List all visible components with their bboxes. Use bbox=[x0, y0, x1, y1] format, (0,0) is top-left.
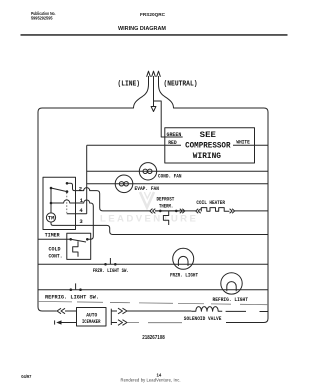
svg-text:COND. FAN: COND. FAN bbox=[158, 174, 182, 180]
svg-text:FRZR. LIGHT: FRZR. LIGHT bbox=[170, 272, 198, 278]
freezer light switch dots bbox=[104, 263, 116, 266]
connector chevrons right of coil heater bbox=[230, 209, 235, 213]
timer terminal 1 wire with hops bbox=[51, 200, 93, 239]
wire icemaker feed bbox=[65, 310, 77, 312]
wire red from node at x86.7 to compressor box bbox=[87, 144, 181, 146]
svg-text:REFRIG. LIGHT: REFRIG. LIGHT bbox=[213, 297, 249, 303]
connector chevrons left of defrost thermostat bbox=[150, 209, 156, 214]
defrost thermostat sensing bracket bbox=[163, 211, 168, 225]
cold control wire from left bus bbox=[38, 238, 71, 240]
wire freezer light rung bbox=[38, 263, 268, 265]
motor evaporator fan circle bbox=[115, 175, 133, 193]
svg-text:04/97: 04/97 bbox=[21, 374, 32, 379]
cold control box bbox=[67, 233, 91, 259]
svg-text:THERM.: THERM. bbox=[159, 204, 173, 210]
svg-text:CONT.: CONT. bbox=[49, 254, 63, 260]
svg-text:DEFROST: DEFROST bbox=[157, 197, 175, 203]
wire LINE: left prong down to left bus bbox=[38, 76, 149, 311]
cold control switch arm bbox=[71, 239, 86, 242]
timer motor bottom lead to terminal 3 bbox=[51, 222, 93, 225]
wire green pigtail to compressor box bbox=[154, 101, 183, 137]
coil solenoid valve bbox=[191, 307, 220, 312]
timer cam linkage (dashed) bbox=[66, 193, 68, 214]
wire evaporator fan rung bbox=[87, 183, 268, 185]
header rule bbox=[21, 34, 288, 36]
icemaker box bbox=[77, 308, 107, 327]
svg-text:(NEUTRAL): (NEUTRAL) bbox=[164, 81, 198, 89]
motor cond fan winding loops bbox=[143, 169, 147, 173]
wire condenser fan rung bbox=[87, 170, 268, 172]
lamp refrigerator light circle bbox=[221, 273, 242, 294]
wire timer common to right bus (jog) bbox=[93, 225, 268, 234]
icemaker upper stub bbox=[111, 310, 117, 312]
lamp refrigerator light filament bbox=[227, 282, 236, 292]
refrigerator light switch dots bbox=[70, 288, 82, 291]
timer wire A down to D bbox=[50, 188, 52, 203]
wire ground prong stem bbox=[153, 76, 155, 106]
connector chevrons icemaker upper bbox=[118, 308, 127, 314]
svg-text:COLD: COLD bbox=[49, 247, 62, 253]
timer contact dots bbox=[50, 182, 69, 204]
lamp freezer light circle bbox=[173, 248, 194, 269]
lamp freezer light filament bbox=[178, 256, 188, 266]
svg-text:RED: RED bbox=[168, 140, 177, 146]
svg-text:LEADVENTURE: LEADVENTURE bbox=[100, 214, 200, 225]
connector chevrons right of defrost thermostat bbox=[180, 209, 185, 213]
svg-text:(LINE): (LINE) bbox=[118, 81, 141, 89]
freezer light switch plunger bbox=[109, 258, 111, 264]
wire bottom rail segments bbox=[127, 322, 182, 324]
svg-text:WHITE: WHITE bbox=[236, 140, 250, 146]
timer terminal 4 wire bbox=[67, 213, 87, 215]
svg-text:5995292595: 5995292595 bbox=[31, 15, 53, 20]
watermark V logo bbox=[140, 192, 154, 208]
wire white from compressor box to right bus bbox=[233, 144, 268, 146]
connector chevrons left of coil heater bbox=[196, 209, 201, 213]
motor condenser fan circle bbox=[139, 163, 156, 180]
svg-text:AUTO: AUTO bbox=[86, 313, 97, 319]
resistor coil heater element bbox=[201, 208, 230, 212]
icemaker lower stub bbox=[111, 322, 117, 324]
connector chevrons left of icemaker bbox=[57, 308, 65, 313]
svg-text:TM: TM bbox=[48, 215, 55, 221]
plug prong right arrowhead bbox=[157, 71, 161, 77]
icemaker connector bracket bbox=[110, 309, 112, 325]
compressor box U1 bbox=[165, 128, 255, 163]
connector chevrons icemaker lower bbox=[118, 320, 127, 326]
ground arrowhead bbox=[151, 107, 156, 112]
plug prong center arrowhead bbox=[152, 71, 156, 77]
svg-text:FRZR. LIGHT SW.: FRZR. LIGHT SW. bbox=[93, 268, 129, 274]
svg-text:WIRING: WIRING bbox=[193, 151, 221, 161]
wire solenoid valve rung bbox=[127, 310, 191, 312]
svg-text:GREEN: GREEN bbox=[167, 132, 182, 138]
defrost thermostat contacts wire bbox=[155, 210, 180, 212]
svg-text:218267108: 218267108 bbox=[142, 335, 165, 341]
timer switch arm bbox=[51, 188, 67, 192]
refrigerator light switch plunger bbox=[75, 283, 77, 289]
wire solenoid to bus (broken) bbox=[220, 310, 268, 312]
svg-text:COIL HEATER: COIL HEATER bbox=[196, 200, 225, 206]
wire faint rung above icemaker bbox=[38, 301, 268, 304]
wire refrigerator light rung bbox=[38, 289, 268, 291]
defrost thermostat dots bbox=[159, 210, 178, 213]
svg-text:TIMER: TIMER bbox=[45, 232, 60, 238]
wire defrost heater rung bbox=[155, 210, 268, 212]
timer motor top lead bbox=[50, 203, 52, 213]
node vertical bus x=86.7 (red/cond/evap/terminal4) bbox=[86, 145, 88, 214]
svg-text:EVAP. FAN: EVAP. FAN bbox=[135, 186, 160, 192]
svg-text:REFRIG. LIGHT SW.: REFRIG. LIGHT SW. bbox=[45, 295, 99, 301]
svg-text:WIRING DIAGRAM: WIRING DIAGRAM bbox=[118, 26, 166, 32]
motor evap fan winding loops bbox=[119, 182, 123, 186]
plug prong left arrowhead bbox=[147, 71, 151, 77]
water valve connector arrow bbox=[62, 322, 77, 324]
svg-text:SOLENOID VALVE: SOLENOID VALVE bbox=[184, 316, 222, 322]
timer box bbox=[43, 177, 76, 229]
cold control contact dots bbox=[69, 238, 88, 241]
svg-text:Rendered by LeadVenture, Inc.: Rendered by LeadVenture, Inc. bbox=[121, 378, 181, 383]
timer motor TM circle bbox=[46, 213, 55, 222]
timer contact wire to terminal 2 bbox=[67, 183, 150, 211]
svg-text:ICEMAKER: ICEMAKER bbox=[82, 319, 101, 325]
wire NEUTRAL: right prong down to right bus bbox=[159, 76, 269, 323]
svg-text:COMPRESSOR: COMPRESSOR bbox=[185, 141, 231, 151]
svg-text:SEE: SEE bbox=[200, 130, 216, 140]
svg-text:FRS20QRC: FRS20QRC bbox=[140, 12, 166, 17]
cold control bellows zigzag bbox=[73, 241, 78, 256]
